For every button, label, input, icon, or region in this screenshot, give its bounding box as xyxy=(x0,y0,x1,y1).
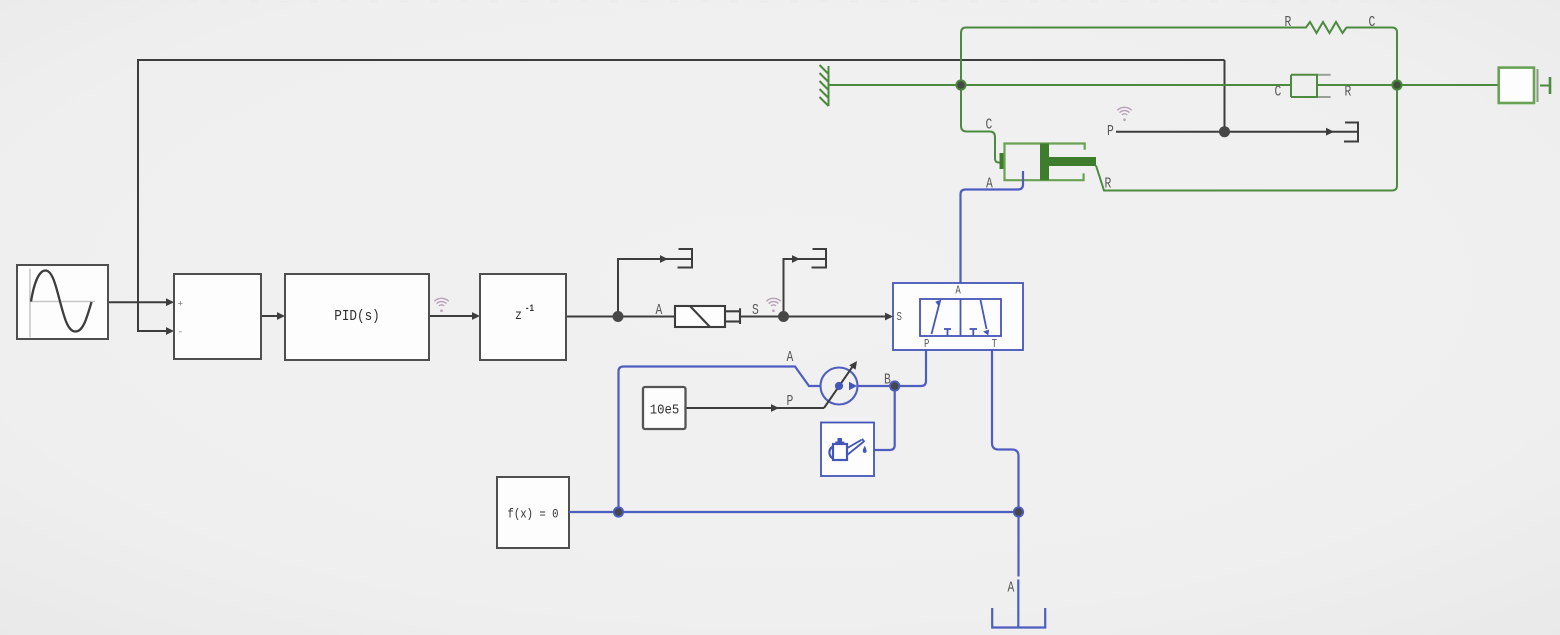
svg-text:A: A xyxy=(1008,581,1015,597)
svg-text:R: R xyxy=(1345,85,1352,101)
svg-text:P: P xyxy=(787,394,794,410)
svg-text:A: A xyxy=(656,303,663,319)
svg-text:10e5: 10e5 xyxy=(650,403,680,419)
svg-text:T: T xyxy=(992,337,997,351)
svg-text:-1: -1 xyxy=(525,303,534,315)
svg-text:S: S xyxy=(897,310,902,324)
svg-text:P: P xyxy=(1107,124,1114,140)
svg-text:C: C xyxy=(1275,85,1282,101)
svg-text:+: + xyxy=(178,299,184,310)
svg-text:A: A xyxy=(955,284,961,298)
svg-text:C: C xyxy=(1369,15,1376,31)
svg-text:A: A xyxy=(787,350,794,366)
svg-text:PID(s): PID(s) xyxy=(334,309,380,325)
svg-text:z: z xyxy=(515,308,522,324)
svg-text:S: S xyxy=(752,303,759,319)
svg-text:-: - xyxy=(178,327,184,338)
svg-text:f(x) = 0: f(x) = 0 xyxy=(508,507,559,522)
svg-text:P: P xyxy=(924,337,929,351)
svg-text:R: R xyxy=(1285,15,1292,31)
